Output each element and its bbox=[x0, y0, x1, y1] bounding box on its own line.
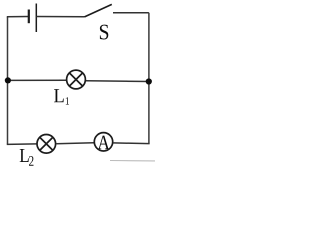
wire: battery to switch pivot bbox=[36, 16, 84, 18]
lamp L1 bbox=[67, 70, 86, 89]
wire: right vertical side bbox=[148, 13, 150, 144]
wire: bottom right segment to corner bbox=[113, 142, 150, 145]
wire: bottom left segment bbox=[7, 143, 37, 146]
wire: left vertical side bbox=[7, 17, 9, 145]
ammeter A bbox=[94, 133, 112, 151]
battery cell bbox=[29, 4, 37, 33]
node: left junction dot bbox=[5, 77, 11, 83]
node: right junction dot bbox=[146, 78, 152, 84]
wire: bottom middle segment between L2 and ammeter bbox=[56, 142, 94, 145]
wire: middle branch left segment bbox=[8, 79, 67, 81]
label L2 bbox=[20, 149, 34, 166]
wire: switch contact to top-right corner bbox=[113, 12, 149, 14]
scan artifact faint line bottom right bbox=[110, 160, 155, 162]
wire: top left horizontal to battery bbox=[7, 16, 29, 18]
wire: middle branch right segment bbox=[86, 80, 149, 83]
lamp L2 bbox=[37, 135, 56, 154]
switch S blade (open) bbox=[85, 4, 112, 17]
label S bbox=[100, 25, 108, 40]
label L1 bbox=[54, 89, 69, 104]
